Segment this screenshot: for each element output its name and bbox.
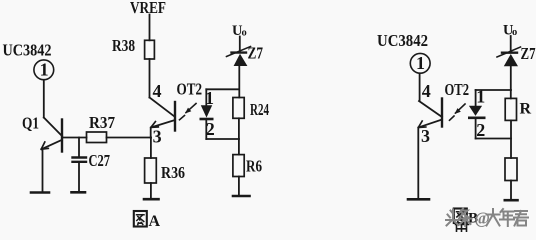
resistor R xyxy=(505,98,516,120)
wire Uo to Z7 (right) xyxy=(510,36,512,52)
年 xyxy=(500,209,514,226)
svg-text:R36: R36 xyxy=(161,163,185,182)
net Uo label (right) xyxy=(503,23,517,39)
svg-text:A: A xyxy=(149,213,161,230)
resistor R36 xyxy=(145,158,157,183)
pin 1 terminal of UC3842 (circled 1) xyxy=(410,53,430,73)
ground (OT2b emitter) xyxy=(408,198,429,201)
wire LED bottom to lower node (right) xyxy=(476,138,511,140)
svg-text:2: 2 xyxy=(476,120,485,140)
svg-text:3: 3 xyxy=(421,126,430,146)
ground (R36) xyxy=(144,198,159,201)
figure label 图A xyxy=(134,211,161,230)
wire OT2 LED anode top lead xyxy=(205,89,207,105)
svg-text:1: 1 xyxy=(40,59,49,79)
transistor Q1 base bar xyxy=(61,120,63,152)
svg-text:4: 4 xyxy=(422,81,431,101)
svg-text:R38: R38 xyxy=(112,36,135,55)
OT2b phototransistor collector lead xyxy=(419,101,442,117)
svg-text:Z7: Z7 xyxy=(248,44,264,63)
svg-text:o: o xyxy=(242,28,247,39)
svg-text:4: 4 xyxy=(153,81,162,101)
wire R37 to node 3 xyxy=(107,137,152,139)
svg-text:Q1: Q1 xyxy=(22,114,39,133)
svg-text:1: 1 xyxy=(416,53,425,73)
svg-text:UC3842: UC3842 xyxy=(3,41,52,60)
transistor Q1 collector lead xyxy=(44,118,62,137)
resistor R38 xyxy=(145,40,155,59)
wire R38 to OT2 collector, pin 4 xyxy=(149,59,151,98)
ground (Q1 emitter) xyxy=(31,191,49,194)
wire Q1 base to R37/C27 node xyxy=(62,137,87,139)
头 xyxy=(446,210,460,226)
wire R24 to lower node xyxy=(238,118,240,154)
wire R to lower node and lower resistor (right) xyxy=(510,121,512,159)
svg-text:UC3842: UC3842 xyxy=(377,31,428,50)
wire R36 to ground xyxy=(150,183,152,198)
svg-text:3: 3 xyxy=(153,126,162,146)
svg-text:OT2: OT2 xyxy=(445,80,470,99)
OT2b phototransistor base bar xyxy=(441,99,443,127)
wire Z7 to top node (right) xyxy=(510,66,512,98)
wire LED bottom to R24/R6 node xyxy=(206,138,239,140)
wire LED cathode lead down (right) xyxy=(475,119,477,139)
OT2b light arrow xyxy=(450,104,466,120)
wire pin1 to Q1 collector xyxy=(43,80,45,118)
君 xyxy=(514,211,528,226)
lower resistor (right, unlabeled) xyxy=(505,158,517,181)
OT2 light arrow xyxy=(180,104,197,120)
resistor R24 xyxy=(233,98,244,119)
wire Q1 emitter to ground xyxy=(42,150,44,192)
OT2 phototransistor base bar xyxy=(174,102,176,131)
svg-text:1: 1 xyxy=(205,88,214,108)
svg-text:R6: R6 xyxy=(246,157,262,176)
wire LED cathode lead down xyxy=(205,120,207,139)
ground (C27) xyxy=(72,191,86,194)
大 xyxy=(487,209,500,226)
wire LED top to Z7 node (right) xyxy=(476,89,511,91)
pin 1 terminal of UC3842 (circled 1) xyxy=(34,59,54,79)
wire LED anode top lead (right) xyxy=(475,90,477,106)
ground (R6) xyxy=(233,195,250,198)
LED diode triangle (right) xyxy=(469,106,482,116)
net Uo label xyxy=(232,23,247,39)
OT2 LED diode triangle xyxy=(201,105,212,117)
wire pin1 to OT2 collector xyxy=(419,73,421,101)
OT2b phototransistor emitter lead with arrow xyxy=(418,120,442,128)
resistor R6 xyxy=(233,155,244,177)
figure label 图B (black, bottom) xyxy=(454,209,478,233)
transistor Q1 emitter lead with arrow xyxy=(41,140,62,149)
wire lower resistor to ground (right) xyxy=(510,181,512,200)
watermark 头条@大年君 (grey) xyxy=(446,209,528,228)
wire Uo to Z7 xyxy=(239,37,241,53)
svg-text:C27: C27 xyxy=(89,151,111,170)
capacitor C27 xyxy=(73,138,87,192)
wire node 3 down to R36 xyxy=(150,138,152,159)
svg-text:o: o xyxy=(512,27,517,38)
svg-text:1: 1 xyxy=(476,87,485,107)
ground (right column) xyxy=(505,199,518,202)
svg-text:R24: R24 xyxy=(250,100,269,119)
LED cathode bar (right) xyxy=(469,117,484,120)
svg-text:OT2: OT2 xyxy=(177,80,203,99)
svg-text:VREF: VREF xyxy=(130,0,166,17)
zener diode Z7 xyxy=(227,47,251,67)
wire Z7 to top node xyxy=(238,66,240,98)
wire VREF to R38 xyxy=(149,15,151,41)
wire emitter to ground xyxy=(417,128,419,199)
svg-text:Z7: Z7 xyxy=(521,44,536,63)
OT2 LED cathode bar xyxy=(201,118,212,121)
svg-text:R: R xyxy=(520,101,532,118)
svg-text:R37: R37 xyxy=(89,113,115,132)
wire LED top to Z7 node xyxy=(206,88,239,90)
OT2 phototransistor collector lead xyxy=(150,98,175,117)
wire R6 to ground xyxy=(238,177,240,196)
条 xyxy=(459,209,472,227)
resistor R37 xyxy=(87,132,107,143)
zener diode Z7 (right) xyxy=(497,47,521,66)
OT2 phototransistor emitter lead with arrow xyxy=(151,120,175,138)
